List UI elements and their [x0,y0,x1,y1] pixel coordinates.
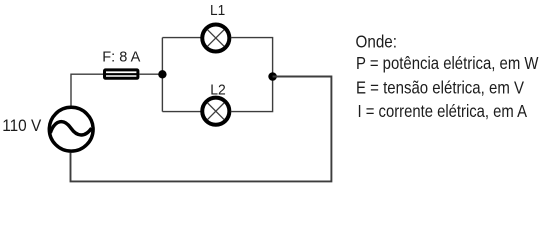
wire: top-left corner from source to fuse [71,74,103,106]
junction dot left [158,70,166,78]
junction dot right [268,72,277,81]
wire: L1 branch right, down to right junction [231,38,273,77]
svg-text:P = potência elétrica, em W: P = potência elétrica, em W [356,53,539,73]
svg-text:L1: L1 [210,2,225,19]
lamp L2 [202,98,229,125]
wire: right rail and bottom return to source [71,77,332,182]
wire: L2 branch left [162,111,201,113]
svg-text:Onde:: Onde: [356,31,398,51]
svg-text:I = corrente elétrica, em A: I = corrente elétrica, em A [358,101,528,121]
lamp L1 [202,24,229,51]
svg-text:L2: L2 [210,81,226,98]
wire: L2 branch right, up to right junction [231,77,273,112]
fuse F [104,70,139,78]
wire: L1 branch left [162,37,201,39]
svg-text:E = tensão elétrica, em V: E = tensão elétrica, em V [356,77,524,97]
svg-text:F: 8 A: F: 8 A [102,48,140,65]
ac source V1 [49,107,93,151]
svg-text:110 V: 110 V [2,116,42,135]
wire: left branch vertical [161,38,163,112]
wire: fuse to left junction [140,73,164,75]
